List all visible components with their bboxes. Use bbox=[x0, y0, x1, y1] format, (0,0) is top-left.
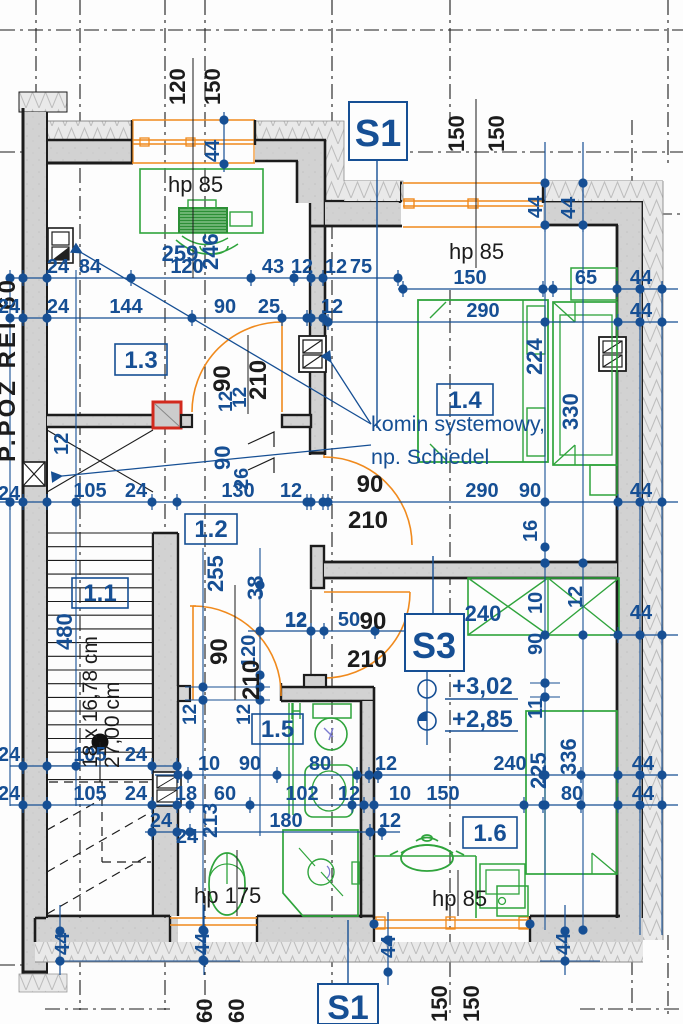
window W3 kitchen bottom bbox=[374, 919, 530, 921]
svg-text:12: 12 bbox=[325, 256, 347, 278]
svg-text:290: 290 bbox=[465, 480, 498, 502]
svg-text:1.5: 1.5 bbox=[261, 716, 294, 743]
toilet bbox=[313, 704, 351, 718]
dim bottom connector bbox=[55, 960, 240, 962]
svg-text:44: 44 bbox=[553, 932, 575, 955]
door bedroom arc bbox=[324, 457, 412, 545]
svg-text:44: 44 bbox=[558, 196, 580, 219]
dim line x193 vertical bbox=[192, 58, 194, 278]
stair lower flight dashed bbox=[49, 781, 151, 783]
desk hp85 outline bbox=[140, 169, 263, 233]
wall Z insulation bbox=[255, 121, 403, 201]
vent box hall column bbox=[299, 336, 326, 372]
section S1 line bottom bbox=[347, 920, 349, 984]
dim row y318 left bbox=[10, 317, 330, 319]
svg-text:150: 150 bbox=[444, 115, 469, 152]
dim top right 44 pair bbox=[544, 142, 546, 232]
room label 1.2 bbox=[185, 514, 237, 544]
door jamb line bath bbox=[310, 590, 312, 676]
column red highlighted bbox=[153, 402, 181, 428]
svg-text:12: 12 bbox=[379, 810, 401, 832]
svg-text:60: 60 bbox=[224, 999, 249, 1023]
dim row y631 bbox=[248, 630, 405, 632]
svg-text:10: 10 bbox=[525, 592, 547, 614]
svg-text:44: 44 bbox=[632, 783, 655, 805]
svg-text:12: 12 bbox=[338, 783, 360, 805]
door 1.5 leaf bbox=[192, 606, 194, 700]
svg-text:44: 44 bbox=[630, 480, 653, 502]
svg-text:44: 44 bbox=[630, 267, 653, 289]
wall bottom left segment bbox=[35, 918, 178, 942]
svg-text:210: 210 bbox=[348, 507, 388, 534]
svg-text:44: 44 bbox=[630, 602, 653, 624]
stair walk line dot bbox=[92, 734, 109, 751]
svg-text:44: 44 bbox=[632, 753, 655, 775]
svg-text:224: 224 bbox=[522, 338, 547, 375]
wall bottom right segment bbox=[530, 918, 643, 942]
shower screen line bbox=[288, 703, 290, 815]
flue box stair wall bbox=[153, 772, 181, 806]
axis vertical x=205 bbox=[204, 0, 206, 1015]
hall thin line x235 bbox=[234, 585, 236, 700]
window W1 top-left bbox=[132, 119, 255, 121]
section S1 top box bbox=[349, 102, 407, 160]
dim line x476 vertical bbox=[475, 99, 477, 268]
wall hall-S3 horizontal bbox=[324, 562, 617, 578]
svg-text:1.1: 1.1 bbox=[83, 580, 116, 607]
room label 1.5 bbox=[252, 714, 303, 744]
svg-text:213: 213 bbox=[199, 803, 222, 838]
svg-text:90: 90 bbox=[239, 753, 261, 775]
wall column to hall bbox=[310, 203, 325, 455]
svg-text:komin systemowy,: komin systemowy, bbox=[371, 412, 545, 436]
svg-text:246: 246 bbox=[198, 233, 223, 270]
dim vertical x10 bbox=[9, 270, 11, 806]
axis vertical x=668 bbox=[667, 0, 669, 165]
vent box left wall upper bbox=[48, 228, 73, 263]
svg-text:10: 10 bbox=[198, 753, 220, 775]
dim door15 short rows bbox=[185, 686, 270, 688]
svg-text:150: 150 bbox=[453, 267, 486, 289]
leader to left upper vent bbox=[82, 253, 371, 424]
svg-text:S3: S3 bbox=[412, 625, 456, 666]
svg-text:1.4: 1.4 bbox=[448, 387, 482, 414]
svg-text:24: 24 bbox=[125, 480, 148, 502]
svg-text:24: 24 bbox=[176, 826, 199, 848]
stair treads bbox=[47, 532, 153, 534]
svg-text:1.6: 1.6 bbox=[473, 820, 506, 847]
svg-text:44: 44 bbox=[378, 935, 400, 958]
bed outline bbox=[418, 300, 548, 462]
svg-text:hp 85: hp 85 bbox=[168, 172, 223, 197]
level mark +2,85 bbox=[418, 712, 436, 730]
axis horizontal y=965 left bbox=[0, 964, 34, 966]
dim row y805 bbox=[10, 804, 678, 806]
svg-text:12: 12 bbox=[234, 704, 255, 725]
axis vertical x=165 bbox=[164, 0, 166, 1010]
radiator mark bath bbox=[292, 703, 300, 719]
leader to left lower vent bbox=[62, 445, 371, 476]
level mark +3,02 bbox=[418, 680, 436, 698]
axis horizontal y=1009 bbox=[45, 1008, 170, 1010]
svg-text:24: 24 bbox=[0, 483, 21, 505]
dim row y278 bbox=[10, 277, 400, 279]
dim row y289 bbox=[398, 288, 678, 290]
room label 1.3 bbox=[115, 344, 167, 375]
svg-text:90: 90 bbox=[525, 633, 547, 655]
hall thin line x248 bbox=[247, 335, 249, 414]
stove pot bbox=[390, 835, 464, 871]
svg-text:44: 44 bbox=[192, 932, 214, 955]
svg-text:65: 65 bbox=[575, 267, 597, 289]
svg-text:12: 12 bbox=[216, 391, 237, 412]
wall left bottom insulation block bbox=[19, 974, 67, 992]
svg-text:12: 12 bbox=[291, 256, 313, 278]
wall right insulation strip bbox=[643, 183, 663, 940]
svg-text:330: 330 bbox=[558, 393, 583, 430]
svg-text:hp 175: hp 175 bbox=[194, 883, 261, 908]
axis vertical x=36 bbox=[35, 0, 37, 990]
svg-text:24: 24 bbox=[125, 744, 148, 766]
room label 1.6 bbox=[463, 817, 517, 848]
desk chair curves bbox=[176, 236, 238, 254]
svg-text:12: 12 bbox=[280, 480, 302, 502]
dim row y766 bbox=[10, 765, 178, 767]
dim row y775 bbox=[155, 774, 678, 776]
svg-text:290: 290 bbox=[466, 300, 499, 322]
dim row y832 bbox=[145, 831, 400, 833]
dim vertical x260 bbox=[259, 548, 261, 836]
svg-text:12: 12 bbox=[285, 610, 307, 632]
desk device bbox=[178, 207, 228, 233]
wall left exterior bbox=[23, 112, 47, 974]
axis horizontal y=152 right bbox=[390, 151, 683, 153]
svg-text:24: 24 bbox=[150, 810, 173, 832]
wall bathroom chimney stub bbox=[304, 675, 326, 687]
svg-text:24: 24 bbox=[125, 783, 148, 805]
svg-text:210: 210 bbox=[238, 660, 265, 700]
boiler oval bbox=[209, 853, 245, 915]
svg-text:90: 90 bbox=[206, 638, 233, 665]
door bottom entry sill bbox=[170, 917, 257, 919]
section S1 line top bbox=[376, 160, 378, 428]
door S3 room leaf bbox=[324, 591, 410, 593]
svg-text:12: 12 bbox=[51, 433, 73, 455]
svg-text:24: 24 bbox=[47, 256, 70, 278]
section S3 box bbox=[405, 614, 464, 671]
dim row y322 right bbox=[330, 321, 678, 323]
dim vertical x76 bbox=[75, 270, 77, 806]
bed inner line bbox=[522, 300, 524, 462]
door 1.3 arc bbox=[192, 322, 282, 412]
svg-text:1.2: 1.2 bbox=[194, 516, 227, 543]
svg-text:75: 75 bbox=[350, 256, 372, 278]
section S1 bottom box bbox=[318, 984, 378, 1024]
stair top diagonals bbox=[47, 430, 153, 492]
wall stub to column bbox=[282, 415, 311, 427]
svg-text:12: 12 bbox=[180, 704, 201, 725]
dim vertical x203 bbox=[202, 548, 204, 963]
axis vertical x=450 bbox=[449, 0, 451, 120]
svg-text:25: 25 bbox=[258, 296, 280, 318]
svg-text:hp 85: hp 85 bbox=[449, 239, 504, 264]
svg-text:24: 24 bbox=[47, 296, 70, 318]
svg-text:102: 102 bbox=[285, 783, 318, 805]
svg-text:12: 12 bbox=[565, 586, 587, 608]
svg-text:S1: S1 bbox=[327, 989, 369, 1024]
svg-text:336: 336 bbox=[556, 738, 581, 775]
dim vertical x545 bbox=[544, 232, 546, 930]
svg-text:S1: S1 bbox=[355, 113, 401, 155]
dots door s3 col bbox=[540, 678, 549, 687]
dim right y635 bbox=[610, 634, 678, 636]
kitchen counter bbox=[374, 855, 476, 857]
dots window W3 bbox=[369, 919, 378, 928]
dim bottom x565 bbox=[564, 905, 566, 975]
axis vertical x=632 bbox=[631, 120, 633, 1015]
dim W1 44 vertical bbox=[223, 112, 225, 172]
wall Z core upper bbox=[255, 140, 325, 162]
door 1.5 arc bbox=[193, 606, 281, 696]
svg-text:90: 90 bbox=[519, 480, 541, 502]
svg-text:hp 85: hp 85 bbox=[432, 886, 487, 911]
svg-text:50: 50 bbox=[338, 609, 360, 631]
svg-text:150: 150 bbox=[427, 985, 452, 1022]
hall chevron marks bbox=[248, 432, 274, 473]
svg-text:60: 60 bbox=[192, 999, 217, 1023]
wall right exterior core bbox=[617, 225, 643, 918]
svg-text:180: 180 bbox=[269, 810, 302, 832]
wardrobe bedroom bbox=[553, 302, 617, 465]
wall bathroom top bbox=[281, 687, 374, 701]
svg-text:90: 90 bbox=[210, 446, 235, 470]
leader to column vent bbox=[331, 362, 371, 424]
wall piece right of red column bbox=[181, 415, 192, 427]
svg-text:18 x 16,78 cm: 18 x 16,78 cm bbox=[79, 636, 102, 768]
svg-text:240: 240 bbox=[493, 753, 526, 775]
svg-text:+3,02: +3,02 bbox=[452, 673, 513, 700]
svg-text:144: 144 bbox=[109, 296, 143, 318]
svg-text:44: 44 bbox=[630, 300, 653, 322]
vent box left wall lower bbox=[23, 462, 45, 486]
washbasin bbox=[305, 765, 353, 817]
dim line hp85b vertical bbox=[457, 870, 459, 916]
svg-text:44: 44 bbox=[202, 139, 224, 162]
svg-text:255: 255 bbox=[203, 555, 228, 592]
wall arm top-left insulation bbox=[48, 121, 132, 140]
svg-text:240: 240 bbox=[465, 601, 502, 626]
kitchen tall cabinet bbox=[526, 711, 617, 874]
wall top-right insulation bbox=[344, 180, 663, 182]
kitchen sink bbox=[480, 864, 525, 908]
dim bottom x388 bbox=[387, 912, 389, 985]
svg-text:1.3: 1.3 bbox=[124, 347, 157, 374]
vent box right wall bbox=[599, 337, 626, 371]
dim vertical x583 bbox=[582, 183, 584, 930]
svg-text:259: 259 bbox=[162, 241, 199, 266]
dim right verticals bbox=[639, 282, 641, 935]
svg-text:27,00 cm: 27,00 cm bbox=[101, 682, 124, 768]
window W2 bedroom top bbox=[403, 182, 543, 184]
svg-text:60: 60 bbox=[214, 783, 236, 805]
wall stair pilaster bbox=[178, 686, 190, 701]
svg-text:480: 480 bbox=[52, 613, 77, 650]
svg-text:80: 80 bbox=[309, 753, 331, 775]
dim row y502 bbox=[0, 501, 678, 503]
svg-text:26: 26 bbox=[231, 468, 253, 490]
svg-text:90: 90 bbox=[360, 608, 387, 635]
svg-text:90: 90 bbox=[214, 296, 236, 318]
axis vertical x=332 bbox=[331, 0, 333, 1015]
wall bedroom top core right bbox=[543, 201, 643, 226]
wall hall-S3 T-post bbox=[311, 546, 324, 588]
room label 1.1 bbox=[72, 578, 128, 608]
wall left exterior hatch cap bbox=[19, 92, 67, 112]
wall bottom insulation strip bbox=[35, 942, 643, 962]
wall bathroom-kitchen divider bbox=[361, 701, 374, 918]
svg-text:43: 43 bbox=[262, 256, 284, 278]
svg-text:210: 210 bbox=[347, 646, 387, 673]
svg-text:105: 105 bbox=[73, 783, 106, 805]
bed pillows bbox=[527, 306, 545, 354]
svg-text:+2,85: +2,85 bbox=[452, 706, 513, 733]
svg-text:150: 150 bbox=[426, 783, 459, 805]
svg-text:44: 44 bbox=[525, 195, 547, 218]
wall Z core column head bbox=[297, 161, 325, 203]
axis horizontal y=30 bbox=[0, 29, 683, 31]
wall bottom mid segment bbox=[257, 918, 374, 942]
svg-text:150: 150 bbox=[459, 985, 484, 1022]
svg-text:38: 38 bbox=[243, 576, 268, 600]
svg-text:80: 80 bbox=[561, 783, 583, 805]
closet X top S3 bbox=[468, 578, 619, 635]
wall bedroom top core left bbox=[325, 202, 401, 226]
door 1.3 leaf bbox=[281, 322, 283, 412]
svg-text:12: 12 bbox=[321, 296, 343, 318]
dim line hp175 vertical bbox=[236, 850, 238, 916]
svg-text:24: 24 bbox=[0, 296, 21, 318]
wall arm top-left core bbox=[48, 140, 132, 163]
kitchen dishwasher bbox=[497, 886, 528, 916]
svg-text:12: 12 bbox=[375, 753, 397, 775]
svg-text:90: 90 bbox=[357, 471, 384, 498]
svg-text:16: 16 bbox=[520, 520, 542, 542]
svg-text:150: 150 bbox=[484, 115, 509, 152]
dots closet top bbox=[540, 542, 549, 551]
axis horizontal y=152 left bbox=[0, 151, 22, 153]
svg-text:120: 120 bbox=[165, 68, 190, 105]
svg-text:84: 84 bbox=[79, 256, 102, 278]
room label 1.4 bbox=[437, 384, 493, 415]
door S3 room arc bbox=[324, 592, 410, 678]
wall stair right side bbox=[155, 533, 178, 916]
svg-text:10: 10 bbox=[389, 783, 411, 805]
axis vertical x=80 bbox=[79, 0, 81, 1010]
wall below room 1.3 bbox=[47, 415, 153, 427]
axis horizontal y=214 in right wall bbox=[545, 213, 683, 215]
dim bottom x204 bbox=[203, 905, 205, 975]
wardrobe bedroom top box bbox=[571, 268, 617, 300]
section S3 line bbox=[432, 556, 434, 614]
svg-text:np. Schiedel: np. Schiedel bbox=[371, 445, 489, 469]
svg-text:150: 150 bbox=[200, 68, 225, 105]
svg-text:18: 18 bbox=[175, 783, 197, 805]
svg-text:225: 225 bbox=[526, 752, 551, 789]
shower bbox=[283, 830, 358, 916]
wardrobe small box below bbox=[590, 465, 617, 495]
dim bottom x60 bbox=[59, 905, 61, 975]
svg-text:44: 44 bbox=[52, 932, 74, 955]
